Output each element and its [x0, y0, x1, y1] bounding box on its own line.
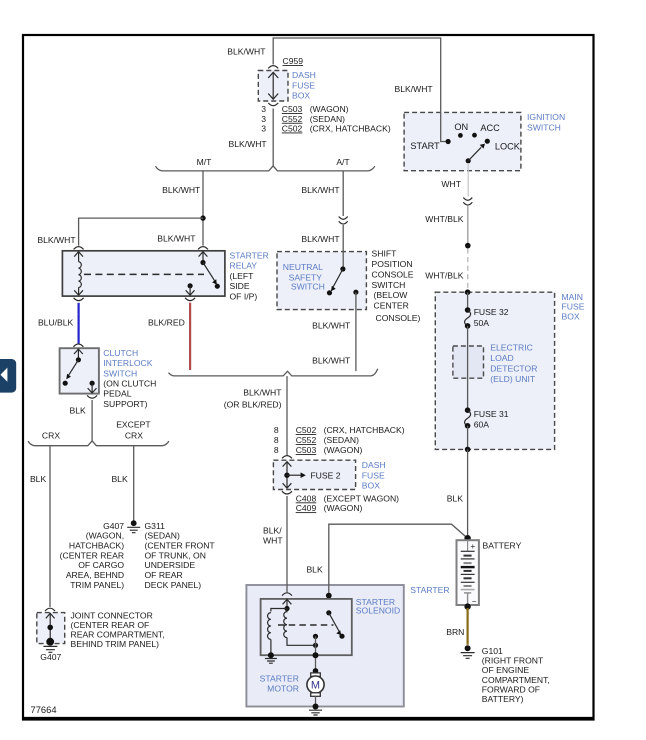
svg-text:START: START	[410, 141, 440, 151]
fuse 32	[465, 307, 509, 329]
solenoid coil node	[284, 606, 289, 611]
svg-text:OF REAR: OF REAR	[145, 570, 183, 580]
starter relay U: box	[62, 251, 268, 302]
svg-text:M/T: M/T	[197, 157, 213, 167]
connector cup below clutch switch	[87, 395, 97, 398]
wire BLK battery cable to starter solenoid	[306, 524, 467, 595]
main fuse box	[435, 292, 584, 450]
ignition switch: box	[404, 112, 565, 171]
svg-text:3: 3	[261, 114, 266, 124]
svg-text:CONSOLE: CONSOLE	[372, 269, 414, 279]
svg-text:OF CARGO: OF CARGO	[78, 560, 124, 570]
svg-text:SHIFT: SHIFT	[372, 249, 398, 259]
svg-text:(CENTER REAR OF: (CENTER REAR OF	[71, 620, 150, 630]
svg-text:BLK/WHT: BLK/WHT	[37, 235, 76, 245]
svg-text:RELAY: RELAY	[230, 261, 258, 271]
svg-text:BLK/WHT: BLK/WHT	[312, 321, 351, 331]
svg-text:STARTER: STARTER	[260, 673, 299, 683]
svg-text:−: −	[472, 597, 477, 606]
merge brace to starter solenoid feed	[169, 369, 378, 376]
svg-text:(WAGON): (WAGON)	[324, 503, 363, 513]
svg-text:SWITCH: SWITCH	[527, 122, 561, 132]
connector cup at relay switch input	[198, 247, 208, 250]
ground label block G407	[60, 521, 125, 590]
pass-through arrows inside dash fuse box	[268, 72, 278, 99]
svg-text:ON: ON	[454, 122, 468, 132]
svg-text:C552: C552	[282, 114, 303, 124]
svg-text:(CRX, HATCHBACK): (CRX, HATCHBACK)	[324, 425, 405, 435]
svg-text:UNDERSIDE: UNDERSIDE	[145, 560, 196, 570]
dashed continuation wire WHT/BLK	[425, 249, 468, 291]
svg-text:(CENTER FRONT: (CENTER FRONT	[145, 541, 216, 551]
wire BLK/WHT down to M/T / A/T split	[228, 109, 273, 166]
wire to relay coil	[37, 218, 203, 246]
svg-text:3: 3	[261, 104, 266, 114]
relay switch contacts and arm	[188, 260, 220, 289]
relay internal dashed link	[84, 273, 204, 275]
svg-text:(SEDAN): (SEDAN)	[145, 531, 180, 541]
svg-text:LOAD: LOAD	[490, 353, 513, 363]
joint connector box	[37, 611, 165, 650]
svg-text:CRX: CRX	[125, 430, 143, 440]
wire A/T branch BLK/WHT	[301, 171, 343, 198]
svg-text:BATTERY): BATTERY)	[482, 694, 524, 704]
svg-text:TRIM PANEL): TRIM PANEL)	[70, 580, 124, 590]
wire WHT	[441, 163, 468, 197]
svg-text:M: M	[311, 680, 320, 692]
svg-text:8: 8	[274, 425, 279, 435]
node on WHT/BLK wire	[465, 243, 471, 249]
svg-text:DASH: DASH	[362, 460, 386, 470]
svg-text:MOTOR: MOTOR	[267, 683, 299, 693]
electric load detector (ELD) unit	[453, 343, 538, 385]
fuse 31	[465, 407, 509, 429]
svg-text:SOLENOID: SOLENOID	[356, 606, 400, 616]
svg-text:C503: C503	[296, 445, 317, 455]
svg-text:AREA, BEHND: AREA, BEHND	[66, 570, 124, 580]
relay coil pin arrows	[74, 252, 83, 295]
ground G407 (joint connector)	[40, 646, 61, 662]
svg-text:BLK/WHT: BLK/WHT	[312, 356, 351, 366]
connector cup at joint connector	[45, 608, 55, 611]
svg-text:BATTERY: BATTERY	[483, 540, 522, 550]
wire BLU/BLK	[38, 303, 79, 344]
svg-text:C959: C959	[283, 56, 304, 66]
svg-text:BLK: BLK	[30, 474, 47, 484]
relay switch pin arrow	[199, 252, 208, 260]
svg-text:(SEDAN): (SEDAN)	[310, 114, 345, 124]
svg-text:SWITCH: SWITCH	[372, 280, 406, 290]
svg-text:WHT/BLK: WHT/BLK	[425, 214, 463, 224]
wire motor to ground	[315, 696, 317, 706]
svg-text:BLK/WHT: BLK/WHT	[228, 139, 267, 149]
svg-text:LOCK: LOCK	[495, 141, 521, 151]
ground G101	[461, 645, 475, 658]
svg-text:8: 8	[274, 435, 279, 445]
svg-text:CONSOLE): CONSOLE)	[376, 313, 421, 323]
connector cup at clutch interlock switch	[73, 344, 83, 347]
svg-text:FUSE 32: FUSE 32	[474, 307, 509, 317]
clutch interlock switch: box	[60, 348, 157, 409]
svg-text:G101: G101	[482, 646, 503, 656]
wire BLK from main fuse box to battery	[447, 449, 468, 538]
svg-text:BLK/: BLK/	[263, 525, 282, 535]
wire ELD to fuse 31	[467, 346, 469, 410]
svg-text:CLUTCH: CLUTCH	[103, 348, 138, 358]
split brace CRX / EXCEPT CRX	[28, 419, 169, 445]
ground label G101	[482, 646, 550, 704]
wire BLK/WHT from neutral safety switch	[312, 292, 356, 371]
svg-text:(SEDAN): (SEDAN)	[324, 435, 359, 445]
svg-text:OF TRUNK, ON: OF TRUNK, ON	[145, 550, 206, 560]
svg-text:SIDE: SIDE	[230, 281, 250, 291]
ground at starter motor	[309, 704, 322, 716]
svg-text:CRX: CRX	[42, 430, 60, 440]
svg-text:(ON CLUTCH: (ON CLUTCH	[103, 379, 156, 389]
svg-text:G407: G407	[103, 521, 124, 531]
node: junction on M/T branch	[200, 215, 205, 220]
svg-text:REAR COMPARTMENT,: REAR COMPARTMENT,	[71, 630, 165, 640]
svg-text:(EXCEPT WAGON): (EXCEPT WAGON)	[324, 493, 400, 503]
svg-text:BLK: BLK	[70, 405, 87, 415]
solenoid internal dashed link	[278, 624, 334, 626]
svg-text:BRN: BRN	[446, 627, 464, 637]
svg-text:C503: C503	[282, 104, 303, 114]
svg-text:(LEFT: (LEFT	[230, 271, 255, 281]
svg-text:OF ENGINE: OF ENGINE	[482, 665, 530, 675]
split brace M/T / A/T	[156, 157, 375, 171]
svg-text:(RIGHT FRONT: (RIGHT FRONT	[482, 656, 544, 666]
svg-text:BOX: BOX	[362, 480, 380, 490]
svg-text:WHT: WHT	[263, 536, 283, 546]
wire BLK/WHT from dash fuse box to ignition switch (top run)	[227, 38, 446, 142]
wire to ELD	[467, 326, 469, 346]
connector cup at solenoid coil input	[282, 593, 292, 596]
svg-text:C502: C502	[282, 124, 303, 134]
svg-text:BLK/WHT: BLK/WHT	[243, 387, 282, 397]
svg-text:PEDAL: PEDAL	[103, 389, 131, 399]
svg-text:BOX: BOX	[292, 91, 310, 101]
svg-text:BLK/WHT: BLK/WHT	[394, 84, 433, 94]
svg-text:(CRX, HATCHBACK): (CRX, HATCHBACK)	[310, 124, 391, 134]
connector C959	[268, 56, 303, 68]
wire BLK CRX branch	[30, 446, 50, 607]
wire solenoid to starter motor	[313, 636, 319, 671]
svg-text:COMPARTMENT,: COMPARTMENT,	[482, 675, 550, 685]
svg-text:BLK: BLK	[111, 474, 128, 484]
svg-text:IGNITION: IGNITION	[527, 112, 565, 122]
dash fuse box (top)	[258, 70, 316, 101]
svg-text:DECK PANEL): DECK PANEL)	[145, 580, 202, 590]
svg-text:(BELOW: (BELOW	[374, 290, 409, 300]
wire to fuse box bottom	[467, 426, 469, 450]
svg-text:ACC: ACC	[480, 123, 500, 133]
ignition switch arm	[466, 144, 485, 164]
svg-text:BEHIND TRIM PANEL): BEHIND TRIM PANEL)	[71, 639, 160, 649]
starter assembly: outer box	[246, 585, 449, 707]
svg-text:POSITION: POSITION	[372, 259, 413, 269]
svg-text:BOX: BOX	[562, 311, 580, 321]
svg-text:STARTER: STARTER	[230, 251, 269, 261]
svg-text:C408: C408	[296, 493, 317, 503]
wire WHT/BLK	[425, 206, 468, 246]
svg-text:BLK/WHT: BLK/WHT	[301, 234, 340, 244]
connector cup at dash fuse box 2	[282, 456, 292, 459]
inline connector on A/T branch	[301, 198, 347, 252]
svg-text:C552: C552	[296, 435, 317, 445]
connectors C408/C409	[282, 491, 399, 513]
clutch switch pin arrow (top)	[74, 349, 83, 358]
svg-text:OF I/P): OF I/P)	[230, 291, 258, 301]
node at battery negative	[464, 603, 470, 609]
ground G407/G311	[127, 520, 140, 532]
svg-text:SUPPORT): SUPPORT)	[103, 399, 147, 409]
svg-text:EXCEPT: EXCEPT	[116, 419, 151, 429]
node at main fuse box top	[465, 289, 471, 295]
connectors C502/C552/C503 (8-pin rows)	[274, 425, 405, 455]
ignition switch terminals	[410, 122, 520, 151]
wire BLK from clutch switch	[70, 400, 93, 441]
svg-text:FORWARD OF: FORWARD OF	[482, 684, 540, 694]
wire BRN	[446, 608, 467, 645]
svg-text:FUSE: FUSE	[292, 80, 315, 90]
svg-text:DASH: DASH	[292, 70, 316, 80]
svg-text:FUSE 31: FUSE 31	[474, 409, 509, 419]
svg-text:C409: C409	[296, 503, 317, 513]
svg-text:C502: C502	[296, 425, 317, 435]
svg-text:+: +	[471, 542, 476, 551]
svg-text:FUSE: FUSE	[562, 302, 585, 312]
shift position console switch label	[372, 249, 421, 323]
svg-text:DETECTOR: DETECTOR	[490, 364, 537, 374]
svg-text:BLU/BLK: BLU/BLK	[38, 318, 74, 328]
svg-text:(WAGON): (WAGON)	[310, 104, 349, 114]
node at main fuse box bottom	[465, 447, 471, 453]
starter solenoid: box	[261, 597, 401, 655]
node at battery positive	[464, 535, 470, 541]
neutral safety switch contacts and arm	[327, 252, 359, 296]
svg-text:SWITCH: SWITCH	[103, 368, 137, 378]
svg-text:WHT/BLK: WHT/BLK	[425, 271, 463, 281]
svg-text:BLK/RED: BLK/RED	[148, 318, 185, 328]
dash fuse box (fuse 2)	[273, 460, 385, 490]
wire M/T branch BLK/WHT	[162, 171, 203, 246]
svg-text:WHT: WHT	[441, 179, 461, 189]
relay output pin arrow	[186, 286, 195, 295]
clutch switch contacts and arm	[63, 357, 95, 386]
svg-text:3: 3	[261, 124, 266, 134]
svg-text:INTERLOCK: INTERLOCK	[103, 358, 152, 368]
wire inside main fuse box	[467, 292, 469, 309]
clutch switch output pin arrow	[88, 383, 97, 393]
wire BLK/RED	[148, 303, 190, 370]
battery	[457, 540, 522, 606]
svg-text:50A: 50A	[474, 318, 490, 328]
starter motor M1	[260, 668, 324, 696]
connectors C503/C552/C502 (3-pin rows)	[261, 103, 391, 134]
svg-text:BLK/WHT: BLK/WHT	[157, 234, 196, 244]
fuse 2 node and arrow	[283, 462, 341, 488]
svg-text:HATCHBACK): HATCHBACK)	[69, 541, 124, 551]
svg-text:BLK/WHT: BLK/WHT	[227, 47, 266, 57]
svg-text:NEUTRAL: NEUTRAL	[283, 262, 323, 272]
solenoid switch	[313, 610, 345, 639]
svg-text:(OR BLK/RED): (OR BLK/RED)	[224, 399, 282, 409]
svg-text:MAIN: MAIN	[562, 292, 583, 302]
solenoid windings	[268, 609, 287, 640]
joint connector pin arrow and node	[46, 613, 55, 645]
svg-text:60A: 60A	[474, 419, 490, 429]
inline connector below ignition switch	[463, 198, 472, 206]
node at solenoid switch input	[326, 593, 332, 613]
relay coil winding	[79, 262, 82, 288]
svg-text:(WAGON): (WAGON)	[324, 445, 363, 455]
svg-text:BLK/WHT: BLK/WHT	[162, 185, 201, 195]
svg-text:(CENTER REAR: (CENTER REAR	[60, 550, 124, 560]
svg-text:STARTER: STARTER	[410, 585, 449, 595]
wire BLK/WHT (OR BLK/RED)	[224, 376, 287, 456]
svg-text:8: 8	[274, 445, 279, 455]
svg-text:A/T: A/T	[336, 157, 350, 167]
wire BLK/WHT to starter solenoid	[263, 496, 287, 592]
solenoid coil ground	[265, 640, 277, 664]
svg-text:SWITCH: SWITCH	[291, 282, 325, 292]
svg-text:ELECTRIC: ELECTRIC	[490, 343, 533, 353]
svg-text:FUSE: FUSE	[362, 470, 385, 480]
svg-text:(WAGON,: (WAGON,	[86, 531, 124, 541]
left navigation tab	[0, 359, 16, 393]
connector cups below relay	[74, 298, 84, 301]
svg-text:BLK: BLK	[447, 493, 464, 503]
connector cup at relay coil input	[74, 247, 84, 250]
wire BLK except-CRX branch	[111, 446, 133, 522]
svg-text:(ELD) UNIT: (ELD) UNIT	[490, 374, 536, 384]
svg-text:BLK: BLK	[306, 564, 323, 574]
svg-text:FUSE 2: FUSE 2	[310, 470, 340, 480]
svg-text:CENTER: CENTER	[374, 301, 409, 311]
solenoid coil input pin arrow	[283, 599, 292, 608]
solenoid winding to motor feed	[287, 638, 318, 648]
svg-text:77664: 77664	[31, 704, 57, 715]
ground label block G311	[145, 521, 216, 590]
neutral safety switch: box	[277, 252, 366, 310]
svg-text:G407: G407	[40, 652, 61, 662]
svg-text:BLK/WHT: BLK/WHT	[301, 185, 340, 195]
svg-text:G311: G311	[145, 521, 166, 531]
